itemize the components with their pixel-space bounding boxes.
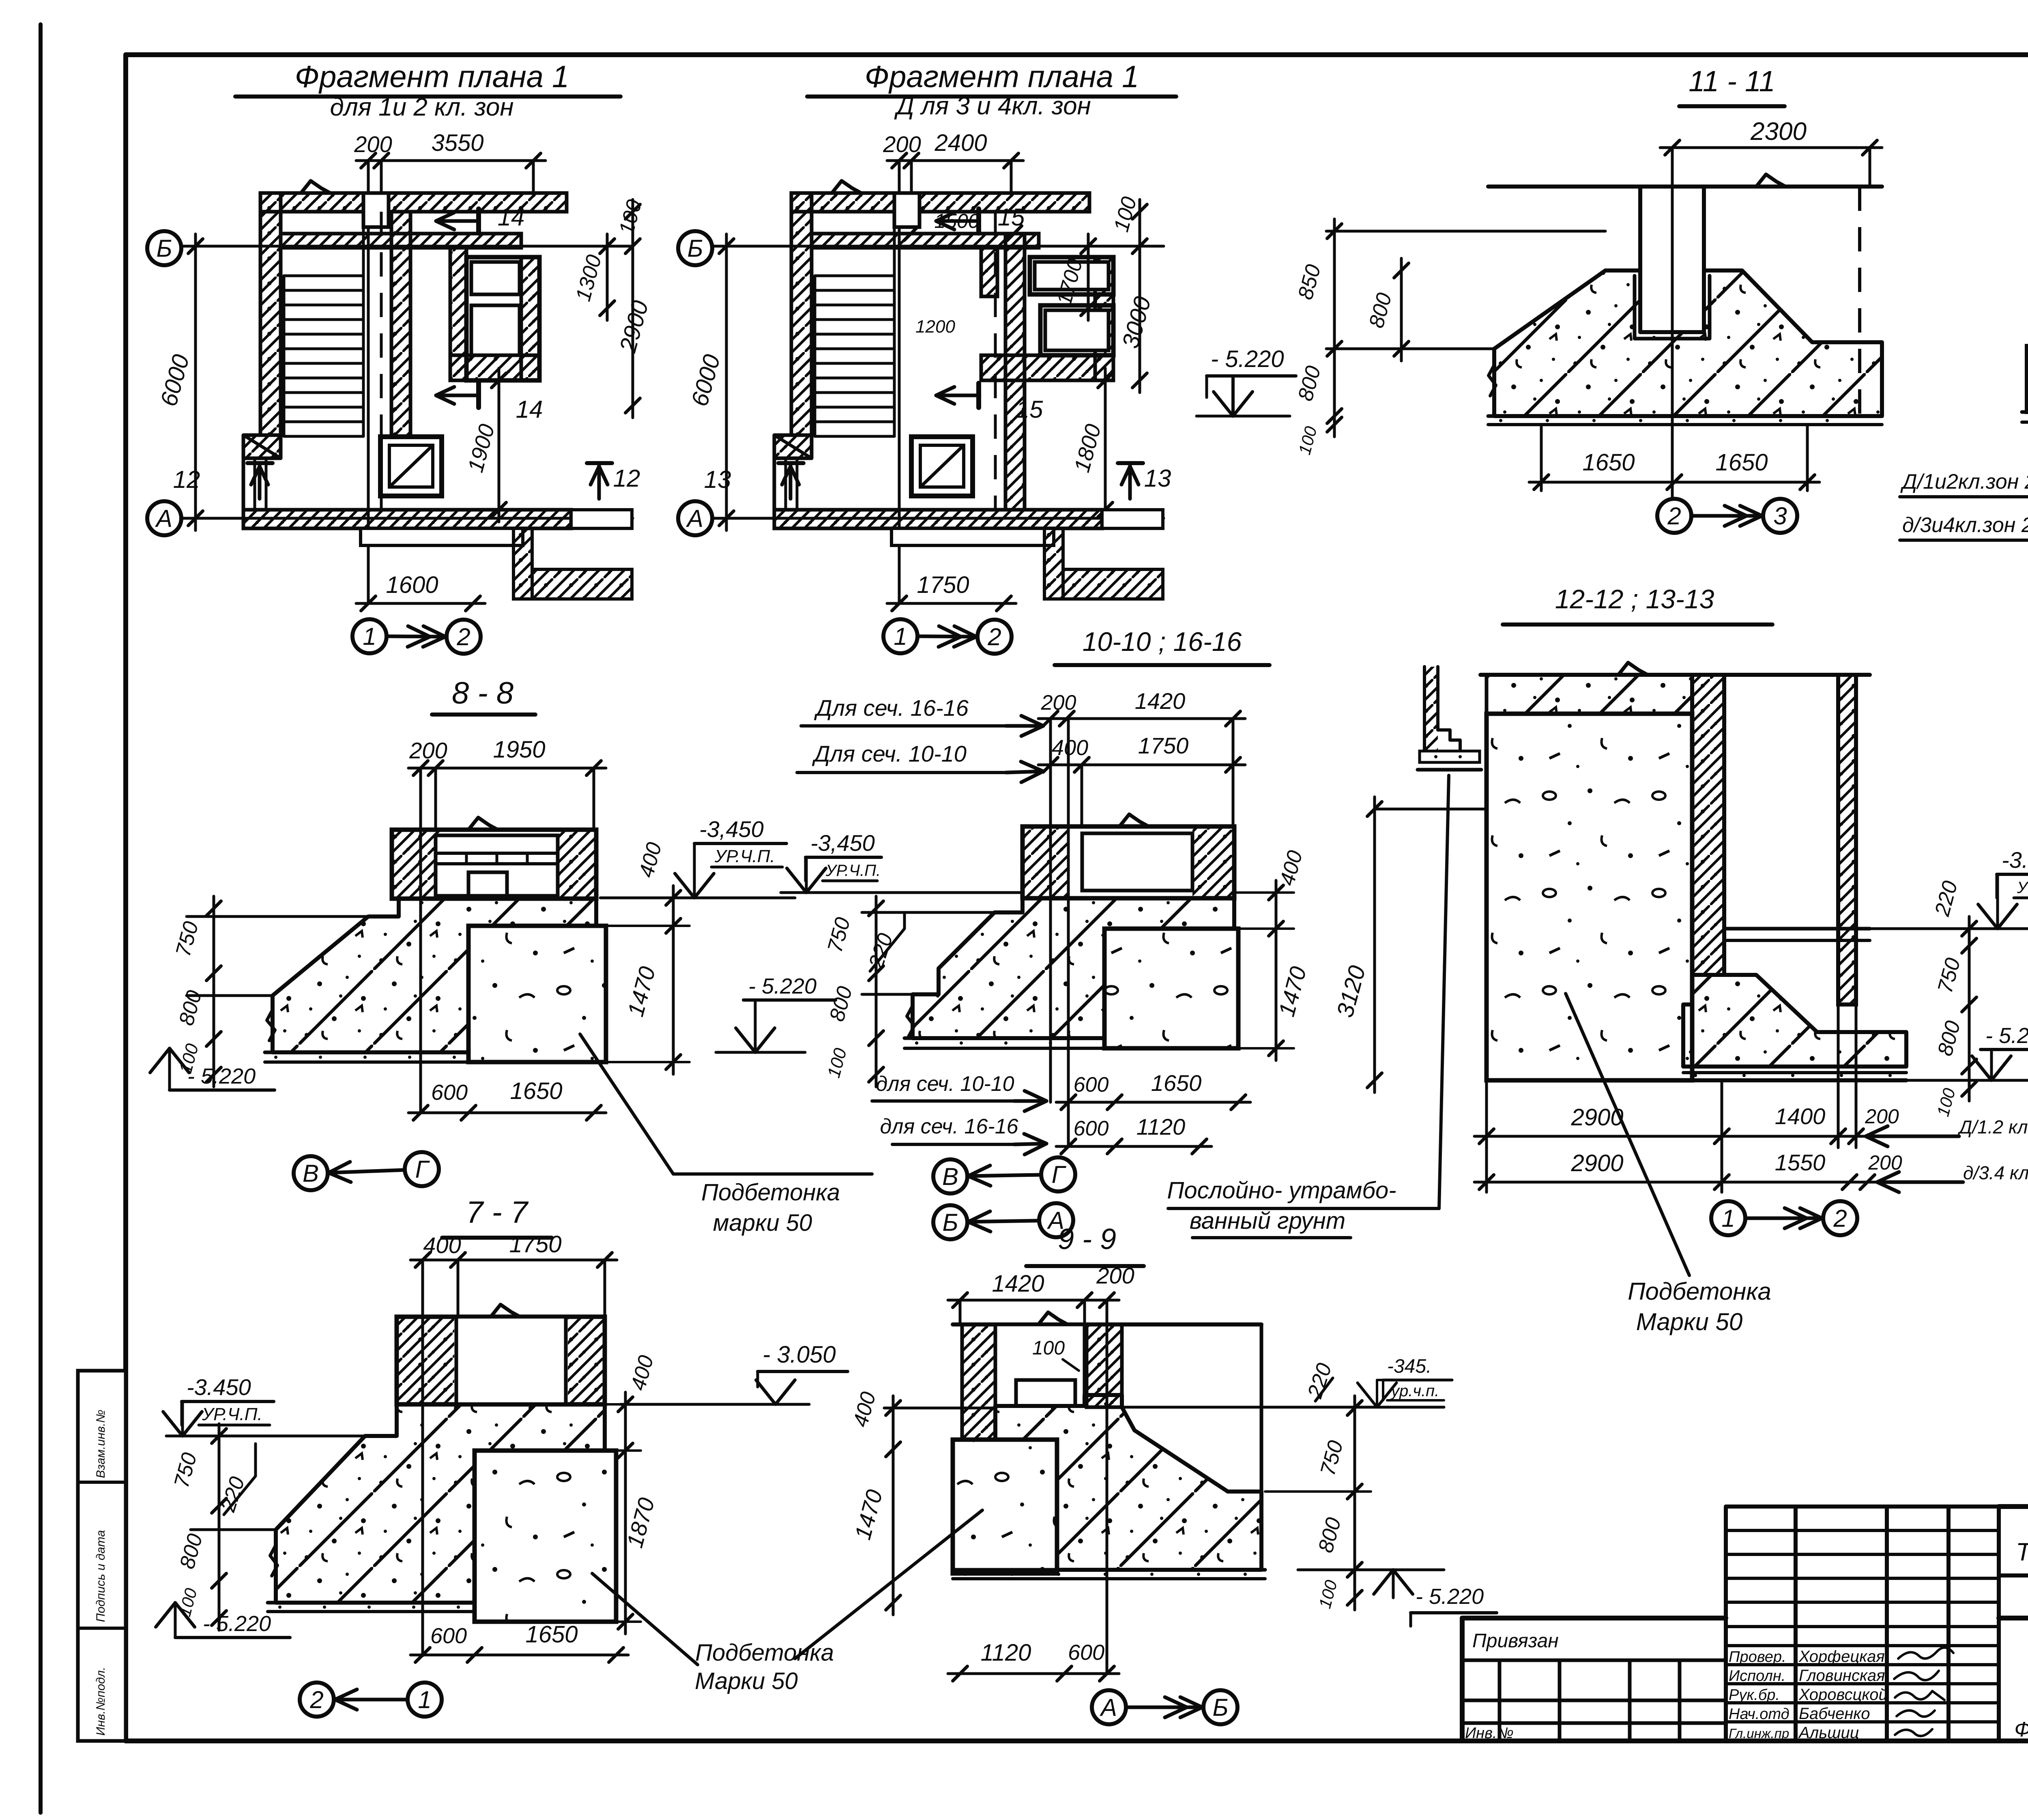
svg-text:-345.: -345. — [1387, 1356, 1431, 1377]
svg-text:Д ля 3 и 4кл. зон: Д ля 3 и 4кл. зон — [894, 92, 1091, 120]
svg-text:Инв.№подл.: Инв.№подл. — [94, 1667, 107, 1736]
svg-text:Альшиц: Альшиц — [1798, 1724, 1859, 1742]
svg-text:1950: 1950 — [493, 736, 545, 763]
svg-text:Хоровсцкой: Хоровсцкой — [1798, 1686, 1888, 1704]
svg-text:600: 600 — [1074, 1117, 1109, 1140]
svg-text:- 5.220: - 5.220 — [748, 974, 816, 998]
svg-text:600: 600 — [1068, 1640, 1104, 1665]
svg-text:1: 1 — [894, 623, 907, 650]
svg-text:-3.450: -3.450 — [187, 1374, 251, 1400]
svg-text:-3,450: -3,450 — [810, 830, 875, 856]
svg-text:Исполн.: Исполн. — [1729, 1668, 1785, 1685]
svg-text:- 5.220: - 5.220 — [1211, 346, 1284, 372]
svg-text:200: 200 — [409, 738, 447, 763]
svg-text:Г: Г — [1052, 1161, 1067, 1188]
svg-text:ванный грунт: ванный грунт — [1190, 1208, 1345, 1234]
svg-text:Г: Г — [415, 1156, 430, 1183]
svg-text:1750: 1750 — [509, 1231, 561, 1258]
svg-text:1650: 1650 — [1715, 449, 1768, 476]
svg-text:12-12 ; 13-13: 12-12 ; 13-13 — [1555, 584, 1714, 614]
svg-text:Привязан: Привязан — [1472, 1630, 1559, 1652]
svg-text:-3,450: -3,450 — [699, 816, 764, 842]
svg-text:УР.Ч.П.: УР.Ч.П. — [825, 862, 881, 880]
svg-text:УР.Ч.П.: УР.Ч.П. — [202, 1404, 262, 1424]
svg-text:Б: Б — [156, 235, 172, 262]
svg-text:Провер.: Провер. — [1729, 1648, 1786, 1665]
svg-text:600: 600 — [430, 1624, 467, 1648]
svg-text:УР.Ч.П.: УР.Ч.П. — [2017, 879, 2028, 897]
svg-text:2: 2 — [987, 623, 1001, 650]
svg-text:1420: 1420 — [1135, 688, 1186, 714]
svg-text:Для сеч. 16-16: Для сеч. 16-16 — [814, 695, 969, 721]
svg-text:1: 1 — [418, 1686, 431, 1713]
svg-text:Подбетонка: Подбетонка — [1628, 1278, 1771, 1305]
svg-text:д/3и4кл.зон 200: д/3и4кл.зон 200 — [1902, 513, 2028, 537]
svg-text:200: 200 — [883, 131, 921, 157]
svg-text:100: 100 — [1032, 1337, 1065, 1359]
svg-text:Б: Б — [942, 1209, 958, 1236]
svg-text:для сеч. 16-16: для сеч. 16-16 — [880, 1115, 1018, 1138]
svg-text:15: 15 — [998, 204, 1025, 231]
svg-text:- 3.050: - 3.050 — [763, 1341, 836, 1368]
svg-text:2: 2 — [1833, 1205, 1847, 1232]
svg-text:1650: 1650 — [525, 1621, 578, 1648]
svg-text:1750: 1750 — [1138, 733, 1189, 758]
svg-text:14: 14 — [498, 204, 525, 231]
svg-text:Инв.№: Инв.№ — [1465, 1725, 1514, 1742]
svg-text:Хорфецкая: Хорфецкая — [1798, 1648, 1885, 1665]
svg-text:1600: 1600 — [386, 572, 438, 598]
svg-text:1650: 1650 — [1582, 449, 1635, 476]
svg-text:для сеч. 10-10: для сеч. 10-10 — [876, 1072, 1014, 1096]
svg-text:2900: 2900 — [1570, 1150, 1623, 1176]
svg-text:Подбетонка: Подбетонка — [701, 1179, 840, 1206]
svg-text:- 5.220: - 5.220 — [1985, 1024, 2028, 1048]
svg-text:Подбетонка: Подбетонка — [695, 1640, 834, 1666]
svg-text:200: 200 — [354, 131, 392, 157]
svg-text:Нач.отд: Нач.отд — [1729, 1706, 1790, 1723]
svg-text:А: А — [1100, 1694, 1117, 1721]
svg-text:10-10 ; 16-16: 10-10 ; 16-16 — [1083, 627, 1242, 657]
svg-text:15: 15 — [1016, 396, 1043, 423]
svg-text:3550: 3550 — [431, 130, 483, 156]
svg-text:2: 2 — [1667, 502, 1681, 530]
svg-text:ур.ч.п.: ур.ч.п. — [1390, 1382, 1439, 1400]
svg-text:11 - 11: 11 - 11 — [1689, 65, 1775, 98]
svg-text:2: 2 — [456, 623, 470, 650]
svg-text:9 - 9: 9 - 9 — [1058, 1223, 1116, 1256]
svg-text:2: 2 — [309, 1686, 323, 1713]
svg-text:14: 14 — [516, 396, 543, 423]
svg-text:для 1и 2 кл. зон: для 1и 2 кл. зон — [330, 93, 514, 121]
svg-text:1120: 1120 — [981, 1640, 1031, 1666]
svg-text:- 5.220: - 5.220 — [203, 1612, 271, 1636]
svg-text:Фрагмент плана 1: Фрагмент плана 1 — [295, 60, 569, 94]
svg-text:д/3.4 кл.зон: д/3.4 кл.зон — [1963, 1162, 2028, 1183]
svg-text:Б: Б — [687, 235, 703, 262]
svg-text:12: 12 — [613, 465, 640, 492]
svg-text:1750: 1750 — [917, 572, 969, 598]
svg-text:200: 200 — [1865, 1105, 1899, 1128]
svg-text:Для сеч. 10-10: Для сеч. 10-10 — [812, 741, 967, 766]
svg-text:1650: 1650 — [1151, 1070, 1202, 1096]
svg-text:8 - 8: 8 - 8 — [452, 676, 513, 710]
svg-text:2300: 2300 — [1750, 118, 1807, 146]
svg-text:Д/1.2 кл.зон: Д/1.2 кл.зон — [1957, 1116, 2028, 1137]
svg-text:600: 600 — [431, 1080, 468, 1105]
svg-text:3: 3 — [1773, 502, 1787, 530]
svg-text:1400: 1400 — [1775, 1103, 1826, 1129]
svg-text:1420: 1420 — [992, 1271, 1044, 1297]
svg-text:Фрагмент плана 1: Фрагмент плана 1 — [865, 60, 1139, 94]
svg-text:1550: 1550 — [1775, 1150, 1826, 1175]
svg-text:200: 200 — [1041, 691, 1076, 715]
svg-text:Взам.инв.№: Взам.инв.№ — [94, 1410, 107, 1478]
svg-text:Гл.инж.пр: Гл.инж.пр — [1729, 1726, 1789, 1741]
svg-text:В: В — [942, 1163, 958, 1190]
svg-text:-3.450: -3.450 — [2002, 847, 2028, 873]
svg-text:1650: 1650 — [510, 1078, 562, 1104]
svg-text:2400: 2400 — [934, 130, 987, 156]
svg-text:13: 13 — [704, 466, 731, 493]
svg-text:В: В — [303, 1160, 319, 1187]
svg-text:Марки 50: Марки 50 — [1636, 1308, 1743, 1335]
svg-text:А: А — [155, 505, 172, 532]
svg-text:1: 1 — [1721, 1205, 1735, 1232]
svg-text:13: 13 — [1144, 465, 1171, 492]
svg-text:Подпись и дата: Подпись и дата — [94, 1530, 107, 1622]
svg-text:Б: Б — [1212, 1694, 1228, 1721]
svg-text:1: 1 — [363, 623, 376, 650]
svg-text:Д/1и2кл.зон 200: Д/1и2кл.зон 200 — [1900, 470, 2028, 494]
svg-text:7 - 7: 7 - 7 — [466, 1195, 529, 1230]
svg-text:200: 200 — [1096, 1263, 1134, 1288]
svg-text:- 5.220: - 5.220 — [187, 1064, 256, 1088]
svg-text:марки 50: марки 50 — [713, 1210, 812, 1236]
svg-text:Марки 50: Марки 50 — [695, 1668, 798, 1694]
svg-text:ТП А-: ТП А- — [2016, 1538, 2028, 1566]
svg-text:Рук.бр.: Рук.бр. — [1729, 1687, 1780, 1704]
svg-text:Бабченко: Бабченко — [1799, 1705, 1870, 1723]
svg-text:1200: 1200 — [915, 317, 955, 337]
svg-text:600: 600 — [1074, 1073, 1109, 1097]
svg-text:А: А — [686, 505, 703, 532]
svg-text:Гловинская: Гловинская — [1799, 1667, 1885, 1685]
svg-text:Послойно- утрамбо-: Послойно- утрамбо- — [1167, 1177, 1396, 1204]
svg-text:12: 12 — [173, 466, 200, 493]
svg-text:УР.Ч.П.: УР.Ч.П. — [714, 846, 775, 866]
svg-text:- 5.220: - 5.220 — [1416, 1584, 1484, 1609]
svg-text:1120: 1120 — [1136, 1114, 1185, 1140]
svg-text:400: 400 — [1052, 736, 1088, 760]
svg-text:Фм 1. Разрезы 6-6 ÷ 16:16.: Фм 1. Разрезы 6-6 ÷ 16:16. — [2014, 1718, 2028, 1741]
svg-text:200: 200 — [1868, 1151, 1902, 1174]
